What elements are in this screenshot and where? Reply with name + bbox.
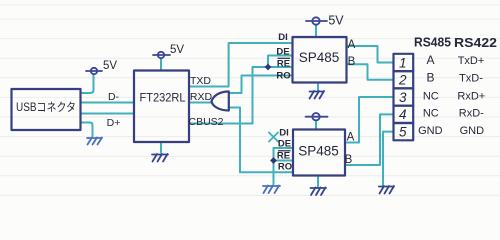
svg-text:RO: RO (278, 162, 292, 173)
svg-text:RxD-: RxD- (459, 108, 484, 120)
svg-text:5V: 5V (103, 60, 117, 72)
svg-text:4: 4 (399, 107, 407, 122)
svg-text:CBUS2: CBUS2 (188, 116, 223, 128)
svg-text:RXD: RXD (190, 91, 213, 103)
svg-text:USBコネクタ: USBコネクタ (16, 101, 76, 114)
svg-text:3: 3 (399, 90, 407, 105)
svg-text:RE: RE (277, 151, 290, 162)
svg-text:DE: DE (278, 139, 291, 150)
svg-text:DI: DI (279, 128, 289, 139)
svg-text:A: A (348, 39, 356, 51)
svg-text:DI: DI (278, 32, 288, 43)
svg-text:TxD-: TxD- (459, 73, 483, 85)
svg-text:1: 1 (399, 55, 407, 70)
svg-text:GND: GND (418, 125, 443, 137)
svg-text:RxD+: RxD+ (457, 91, 485, 103)
svg-text:TXD: TXD (190, 75, 211, 87)
svg-text:B: B (348, 56, 356, 68)
svg-text:2: 2 (398, 73, 407, 88)
svg-text:D-: D- (108, 91, 120, 103)
svg-text:5V: 5V (170, 44, 184, 56)
svg-text:A: A (426, 53, 434, 67)
svg-text:B: B (426, 71, 434, 85)
svg-text:SP485: SP485 (299, 50, 340, 65)
svg-text:B: B (345, 154, 353, 166)
svg-text:A: A (347, 132, 355, 144)
svg-text:RE: RE (277, 59, 290, 70)
svg-text:RS485: RS485 (414, 36, 451, 50)
svg-text:5: 5 (399, 125, 407, 140)
svg-text:RS422: RS422 (454, 36, 497, 50)
svg-text:FT232RL: FT232RL (140, 91, 186, 105)
svg-text:D+: D+ (107, 117, 121, 129)
svg-text:NC: NC (423, 91, 439, 103)
svg-text:TxD+: TxD+ (458, 55, 485, 67)
svg-text:DE: DE (276, 47, 289, 58)
svg-text:SP485: SP485 (298, 144, 339, 159)
svg-text:NC: NC (423, 108, 439, 120)
svg-text:GND: GND (460, 125, 485, 137)
svg-text:5V: 5V (328, 14, 344, 28)
svg-text:RO: RO (276, 71, 290, 82)
